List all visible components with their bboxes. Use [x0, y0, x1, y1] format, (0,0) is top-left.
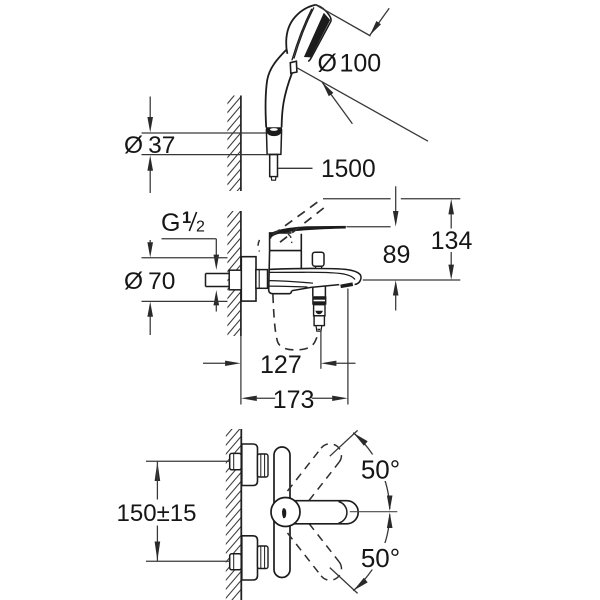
wall hatch middle section — [222, 198, 244, 359]
dimension Ø37 extension bottom — [142, 154, 270, 156]
dimension 134 — [448, 199, 454, 215]
connector cylinder — [256, 270, 268, 289]
arc 50 upper — [353, 433, 390, 509]
dimension Ø100 upper arrow — [370, 8, 389, 35]
pivot dark mark — [282, 508, 286, 518]
coupling bottom — [258, 546, 269, 569]
flange top — [242, 444, 258, 486]
escutcheon Ø70 — [241, 257, 256, 301]
shower outlet nut — [314, 305, 325, 316]
shower outlet knurled nut — [312, 296, 326, 305]
svg-text:89: 89 — [383, 241, 411, 269]
diverter knob — [312, 252, 324, 266]
holder cup dark — [266, 127, 282, 136]
svg-text:134: 134 — [431, 227, 473, 255]
dimension 173 — [241, 396, 257, 401]
spout top face inner line — [269, 272, 356, 279]
body capsule — [274, 447, 290, 578]
svg-text:50°: 50° — [361, 454, 400, 484]
handle capsule — [283, 501, 358, 524]
wall line middle — [240, 211, 242, 336]
nut bottom — [230, 554, 242, 570]
dimension 127 — [203, 362, 226, 364]
radial ext line lower — [330, 568, 358, 594]
dimension Ø37 line top + arrow — [149, 97, 151, 118]
leader 1500 — [278, 167, 313, 169]
arc 50 lower — [353, 514, 390, 590]
shower handle right edge — [282, 73, 292, 127]
shower outlet lower — [314, 316, 324, 326]
handle inner cap arc — [339, 502, 347, 524]
shower face dark band — [304, 13, 330, 58]
dimension 89 — [395, 186, 397, 211]
svg-text:173: 173 — [273, 386, 315, 414]
svg-text:2: 2 — [196, 219, 205, 236]
svg-text:1500: 1500 — [321, 156, 376, 183]
dimension Ø70 extension lines — [142, 257, 228, 259]
handle dashed 50 down — [288, 524, 342, 581]
svg-text:Ø37: Ø37 — [124, 132, 175, 159]
hose loop dashed — [273, 295, 319, 350]
handle dashed raised 50 up — [288, 444, 342, 501]
lever butt outline — [269, 234, 272, 239]
coupling top — [258, 454, 269, 477]
spout lower face line — [269, 285, 308, 288]
dimension Ø100 extension line 1 — [317, 5, 371, 36]
supply nut — [229, 270, 241, 290]
svg-text:Ø70: Ø70 — [124, 268, 175, 295]
body lower outline — [269, 251, 292, 294]
spout aerator — [341, 284, 353, 286]
white gap behind 50 labels — [360, 455, 402, 482]
wall hatch top section — [222, 84, 244, 209]
svg-text:Ø100: Ø100 — [318, 50, 382, 78]
shower outlet tip — [316, 326, 322, 332]
G 1/2 leader — [162, 239, 217, 255]
extension line y198 from raised lever — [323, 198, 460, 200]
svg-text:50°: 50° — [361, 543, 400, 573]
shower face rim lines — [294, 7, 314, 58]
flange bottom — [242, 536, 258, 580]
pivot circle — [271, 498, 300, 527]
dimension Ø37 line bottom + arrow — [147, 155, 153, 171]
radial ext line upper — [330, 430, 358, 456]
shower handle left edge — [266, 50, 287, 128]
wall line top — [240, 96, 242, 192]
body cartridge block — [270, 233, 302, 269]
svg-text:150±15: 150±15 — [117, 500, 197, 527]
hose connector — [270, 155, 278, 177]
spout top edge — [269, 268, 361, 284]
nut top — [230, 453, 242, 469]
dimension Ø70 arrows — [149, 240, 151, 243]
lever solid dark — [271, 226, 346, 238]
hose connector tip — [271, 177, 276, 181]
lever raised dashed — [273, 199, 327, 242]
spout mid face line — [269, 281, 313, 284]
dimension 150+-15 — [146, 460, 230, 462]
dimension Ø100 extension line 2 — [297, 68, 428, 142]
wall hatch bottom section — [220, 415, 244, 600]
shower nub — [290, 61, 297, 73]
extension line y280 from spout tip — [363, 279, 461, 281]
shower outlet boss — [313, 286, 326, 296]
dimension Ø37 extension top — [142, 132, 267, 134]
holder cone — [266, 130, 281, 154]
svg-text:1: 1 — [182, 209, 191, 227]
centerline bottom — [350, 511, 398, 513]
supply pipe — [206, 274, 230, 287]
shower head back outline — [286, 5, 316, 54]
dimension Ø100 lower arrow — [322, 82, 352, 124]
shower head face right outline — [308, 5, 331, 62]
spout underside — [292, 285, 340, 291]
wall line bottom view — [240, 429, 242, 600]
svg-text:127: 127 — [260, 351, 302, 379]
lever raised butt dashes — [258, 240, 260, 252]
svg-text:G: G — [161, 209, 180, 237]
extension line y226 from lever tip — [347, 226, 391, 228]
